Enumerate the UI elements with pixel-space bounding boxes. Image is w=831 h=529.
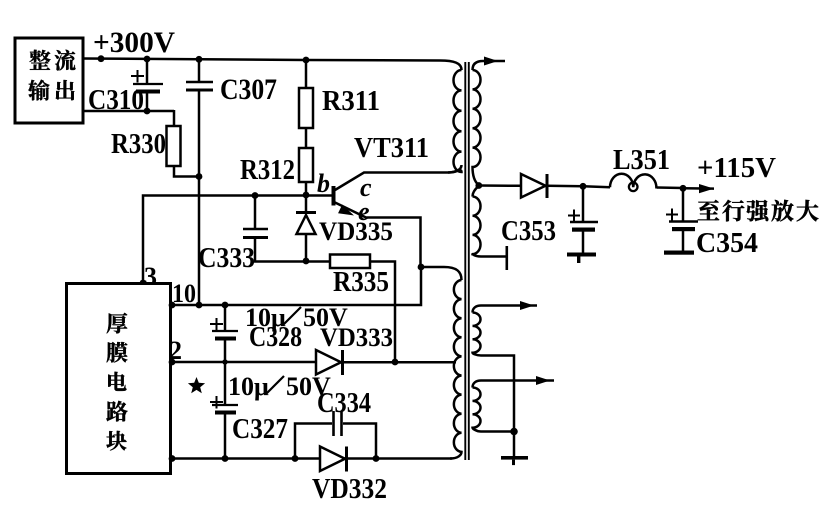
wire bottom line bbox=[171, 457, 320, 460]
capacitor C310 bbox=[146, 59, 149, 83]
svg-text:10μ: 10μ bbox=[228, 372, 269, 401]
node C327 bottom bbox=[222, 455, 229, 462]
diode secondary rectifier bbox=[479, 184, 521, 187]
transformer primary winding (bottom, emitter) bbox=[421, 267, 462, 280]
node pin10 at block edge bbox=[169, 302, 176, 309]
capacitor C327 bbox=[224, 362, 227, 404]
resistor R330 bbox=[173, 110, 176, 126]
svg-text:C327: C327 bbox=[232, 414, 288, 445]
svg-text:VT311: VT311 bbox=[354, 133, 429, 164]
diode VD332 bbox=[320, 447, 345, 472]
wire +115V output with arrow bbox=[683, 187, 714, 190]
svg-text:VD332: VD332 bbox=[312, 474, 387, 505]
capacitor C354 bbox=[682, 188, 685, 221]
svg-text:R312: R312 bbox=[240, 155, 295, 186]
block: rectifier output (整流输出) bbox=[15, 38, 83, 123]
svg-text:C307: C307 bbox=[220, 73, 277, 106]
svg-text:R311: R311 bbox=[322, 86, 380, 117]
label 至行强放大 bbox=[698, 200, 719, 220]
arrow top secondary output bbox=[484, 57, 498, 66]
wire base line bbox=[143, 196, 332, 284]
node R330 to C307 junction bbox=[196, 173, 203, 180]
transformer core bbox=[464, 62, 466, 460]
svg-text:VD335: VD335 bbox=[319, 217, 393, 246]
polarity + of C328 bbox=[210, 323, 223, 325]
node bottom at block edge bbox=[169, 455, 176, 462]
emitter of VT311 with arrow bbox=[335, 203, 421, 268]
svg-text:L351: L351 bbox=[613, 145, 670, 176]
diode VD333 bbox=[316, 350, 341, 375]
resistor R312 bbox=[299, 148, 313, 182]
node base line / R312 / VD335 bbox=[303, 192, 310, 199]
node +115V output bbox=[680, 185, 687, 192]
capacitor C333 bbox=[254, 196, 257, 229]
label asterisk star bbox=[188, 377, 205, 393]
wire pin 10 line bbox=[171, 267, 421, 305]
polarity + of C354 bbox=[666, 214, 678, 216]
inductor L351 bbox=[583, 186, 610, 187]
node C310 bottom junction bbox=[144, 108, 151, 115]
node +300V junction bbox=[98, 55, 105, 62]
svg-text:b: b bbox=[317, 169, 330, 198]
capacitor C334 bbox=[295, 424, 332, 459]
resistor R311 bbox=[305, 60, 308, 88]
wire pin 2 line bbox=[171, 361, 316, 364]
node C307 top junction bbox=[196, 56, 203, 63]
svg-text:C353: C353 bbox=[501, 216, 556, 247]
transformer secondary winding (top) bbox=[473, 61, 506, 70]
node secondary tap to diode bbox=[475, 182, 482, 189]
node R335 to VD333 line bbox=[392, 359, 399, 366]
capacitor after diode bbox=[582, 186, 585, 221]
polarity + of C310 bbox=[131, 75, 144, 77]
wire +300V rail bbox=[83, 59, 462, 71]
transformer secondary winding (mid, C353) bbox=[473, 186, 479, 197]
svg-text:VD333: VD333 bbox=[320, 323, 393, 352]
node C328 bottom / pin2 junction bbox=[222, 359, 227, 364]
resistor R335 bbox=[330, 255, 370, 269]
node diode output bbox=[580, 183, 587, 190]
ground bar of C354 bbox=[664, 251, 694, 255]
transistor VT311 bbox=[332, 186, 336, 206]
svg-text:C328: C328 bbox=[249, 322, 302, 353]
svg-text:C333: C333 bbox=[198, 243, 255, 274]
node C328 top bbox=[222, 302, 229, 309]
node VD335 anode junction bbox=[303, 258, 310, 265]
node C307 bottom bbox=[196, 302, 203, 309]
arrow secondary B output bbox=[536, 376, 550, 385]
wire R312 to base node bbox=[305, 182, 308, 195]
svg-text:C354: C354 bbox=[696, 228, 758, 259]
block: thick-film circuit (厚膜电路块) bbox=[67, 284, 171, 474]
node pin2 at block edge bbox=[169, 359, 176, 366]
svg-text:R330: R330 bbox=[111, 129, 166, 160]
wire R311 to R312 bbox=[305, 128, 308, 148]
polarity + of C327 bbox=[210, 401, 223, 403]
svg-text:2: 2 bbox=[169, 336, 182, 365]
svg-text:+115V: +115V bbox=[697, 152, 776, 184]
node C333 top bbox=[252, 192, 259, 199]
node winding B to ground bbox=[510, 428, 518, 436]
collector of VT311 bbox=[335, 165, 462, 190]
transformer secondary winding B bbox=[473, 381, 555, 388]
node R311 top junction bbox=[303, 57, 310, 64]
svg-text:C334: C334 bbox=[317, 388, 371, 419]
wire box to C310 bottom bbox=[83, 110, 174, 113]
capacitor C307 bbox=[198, 59, 201, 81]
node C334 right bbox=[373, 455, 380, 462]
polarity + bbox=[568, 215, 580, 217]
node emitter junction bbox=[418, 264, 425, 271]
ground bbox=[513, 432, 516, 457]
node C334 left bbox=[292, 455, 299, 462]
svg-text:10: 10 bbox=[172, 279, 196, 308]
svg-text:+300V: +300V bbox=[93, 26, 175, 59]
transformer secondary winding A bbox=[473, 306, 538, 313]
node C310 top junction bbox=[144, 56, 151, 63]
capacitor C328 bbox=[224, 305, 227, 330]
node pin3 at block top bbox=[140, 280, 147, 287]
arrow secondary A output bbox=[520, 301, 534, 310]
ground bar bbox=[567, 253, 596, 257]
diode VD335 bbox=[305, 195, 308, 212]
transformer primary winding (top, collector) bbox=[448, 70, 462, 173]
capacitor C353 plate bbox=[505, 246, 508, 270]
svg-text:R335: R335 bbox=[333, 267, 389, 298]
